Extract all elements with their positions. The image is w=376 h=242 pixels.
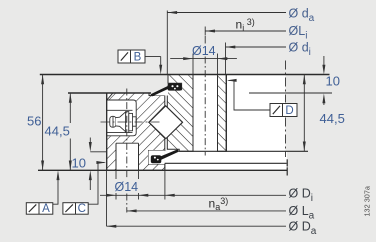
svg-text:B: B (134, 52, 142, 64)
bore top chamfer (107, 93, 113, 100)
inner ring lower face to break (165, 162, 287, 164)
10 left dim (89, 138, 91, 147)
dimension + leader lines (43, 11, 324, 227)
44,5 left dim (69, 93, 71, 123)
arrowheads (41, 11, 325, 228)
10 right dim (323, 56, 325, 69)
hole-count labels (dark) (209, 17, 255, 212)
inner ring bore surface (225, 75, 227, 152)
top dia14 dim line (170, 58, 237, 60)
bottom seal groove (white) (149, 151, 165, 165)
top hole edge extensions (192, 54, 194, 75)
d_a extension (166, 11, 168, 75)
right-side extension of outer-ring top level (249, 92, 332, 94)
label lines bottom (100, 194, 286, 196)
crossed roller (diamond) (149, 106, 183, 139)
diameter labels (dark) (289, 7, 317, 237)
gap between rings white (165, 96, 168, 107)
white strip below rings to break line (165, 151, 287, 170)
inner ring (right, hatched \) (167, 75, 226, 152)
svg-text:10: 10 (72, 156, 86, 171)
outer ring top face + left extension (68, 92, 151, 94)
surface finish flag boxes (26, 50, 297, 215)
svg-text:44,5: 44,5 (45, 124, 70, 139)
outer ring (left, hatched /) (107, 93, 165, 170)
svg-text:D: D (285, 105, 293, 117)
svg-text:Ø14: Ø14 (114, 180, 138, 194)
top mounting hole (white) (193, 75, 218, 152)
nipple centerline (101, 121, 160, 123)
svg-text:132 307a: 132 307a (362, 185, 371, 216)
centerlines (dash-dot) (127, 27, 286, 213)
unsectioned inner-ring portion (white) (226, 75, 285, 152)
white wedge under top seal lip (154, 89, 169, 96)
label lines top (167, 12, 286, 14)
grease nipple recess (white) (107, 100, 137, 136)
inner ring top face + extensions (40, 74, 330, 76)
top seal (black elastomer) (151, 83, 182, 96)
bottom mounting hole (white) (116, 143, 139, 170)
outer ring bottom face + extensions (38, 169, 287, 171)
svg-text:C: C (78, 203, 86, 215)
svg-text:10: 10 (326, 74, 340, 89)
svg-text:56: 56 (27, 114, 41, 129)
inner ring bottom face (179, 150, 308, 152)
svg-text:Ø14: Ø14 (192, 44, 216, 58)
flag leaders (145, 56, 161, 58)
break ticks (286, 159, 288, 166)
seal notch white (167, 149, 179, 151)
dimension texts (blue) (27, 44, 345, 194)
56 dim (42, 75, 44, 171)
bottom extensions (106, 170, 108, 226)
bottom seal (black elastomer) (151, 149, 179, 163)
svg-text:A: A (42, 203, 50, 215)
main outline lines (38, 75, 332, 176)
bore (outer ring OD surface) (106, 93, 108, 170)
grease nipple (107, 110, 137, 132)
44,5 right dim (303, 75, 305, 152)
svg-text:44,5: 44,5 (320, 111, 345, 126)
d_i extension (225, 43, 227, 75)
